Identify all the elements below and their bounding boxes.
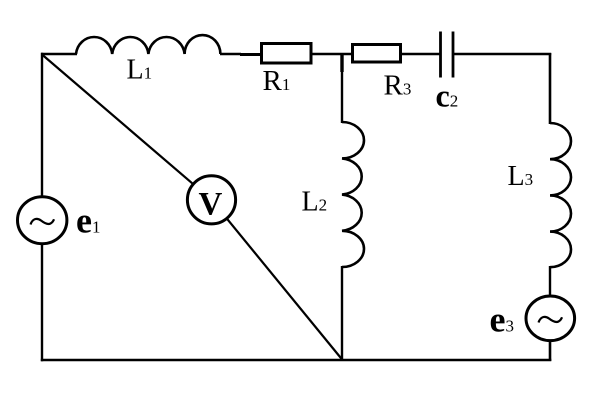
capacitor C2 plate 1 — [439, 32, 442, 78]
resistor R1 — [262, 44, 312, 64]
inductor L1 — [76, 35, 220, 54]
wire lead into R1 — [240, 53, 261, 56]
wire L3 to e3 — [549, 266, 551, 296]
voltmeter V circle — [187, 176, 235, 224]
wire top-left A to L1 — [41, 53, 77, 55]
wire L1 to R1 — [220, 53, 241, 55]
capacitor C2 plate 2 — [452, 32, 455, 78]
wire C2 to top-right corner C — [454, 53, 551, 55]
bottom rail wire — [41, 359, 552, 362]
inductor L3 — [550, 123, 571, 267]
resistor R3 — [353, 45, 401, 63]
node B vertical junction wire — [341, 53, 343, 123]
svg-text:V: V — [199, 187, 223, 223]
source e1 circle — [18, 197, 67, 244]
voltmeter wire diagonal from V to E — [212, 200, 343, 360]
source e3 circle — [526, 296, 575, 341]
left vertical wire top segment — [41, 53, 43, 197]
wire e3 to bottom rail — [549, 340, 552, 361]
source e3 tilde — [539, 317, 563, 323]
inductor L2 — [342, 122, 364, 267]
wire R1 to node B — [312, 53, 352, 55]
voltmeter wire diagonal from A to V — [42, 55, 212, 200]
wire L2 to bottom junction E — [341, 266, 343, 361]
node B junction thick stub — [340, 53, 343, 72]
left vertical wire bottom segment — [41, 244, 43, 361]
source e1 tilde — [31, 219, 55, 225]
wire right vertical C to L3 — [549, 53, 552, 124]
wire R3 to C2 — [401, 53, 440, 55]
